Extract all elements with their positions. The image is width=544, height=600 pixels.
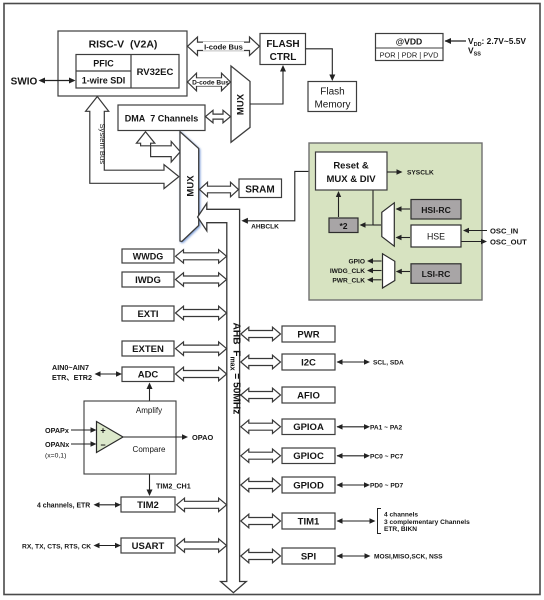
svg-text:IWDG: IWDG	[135, 275, 161, 286]
svg-text:SRAM: SRAM	[245, 185, 274, 196]
wire TIM2 pins arrow	[95, 504, 120, 506]
svg-text:RX, TX, CTS, RTS, CK: RX, TX, CTS, RTS, CK	[22, 543, 91, 550]
mux M1 central AHB mux	[180, 132, 199, 242]
wire VDD supply arrow	[445, 40, 466, 42]
svg-text:AIN0~AIN7: AIN0~AIN7	[52, 363, 89, 372]
bus DMA to M2 mux arrow	[206, 110, 231, 123]
wire SPI pins arrow	[337, 555, 369, 557]
svg-text:PD0 ~ PD7: PD0 ~ PD7	[370, 483, 404, 490]
svg-text:MOSI,MISO,SCK, NSS: MOSI,MISO,SCK, NSS	[374, 554, 443, 561]
wire OPAPx input	[71, 429, 95, 431]
svg-text:DMA 7 Channels: DMA 7 Channels	[125, 114, 199, 124]
wire USART pins arrow	[95, 545, 120, 547]
node TIM1 pins bracket	[378, 509, 382, 534]
svg-text:I2C: I2C	[301, 357, 316, 368]
bus AHB-GPIOA arrow	[241, 420, 281, 434]
svg-text:TIM1: TIM1	[298, 516, 320, 527]
svg-text:OSC_IN: OSC_IN	[490, 226, 518, 235]
wire GPIOA pins arrow	[337, 426, 369, 428]
svg-text:*2: *2	[339, 221, 347, 231]
svg-text:MUX & DIV: MUX & DIV	[326, 174, 376, 185]
svg-text:@VDD: @VDD	[396, 36, 423, 46]
svg-text:1-wire SDI: 1-wire SDI	[82, 76, 126, 86]
svg-text:4 channels: 4 channels	[384, 512, 418, 519]
wire ADC to TIM2 vertical TIM2_CH1	[149, 384, 151, 495]
svg-text:RISC-V (V2A): RISC-V (V2A)	[89, 39, 158, 51]
svg-text:AHBCLK: AHBCLK	[251, 223, 279, 230]
bus WWDG-AHB arrow	[176, 250, 227, 264]
svg-text:MUX: MUX	[236, 93, 247, 115]
svg-text:POR | PDR | PVD: POR | PDR | PVD	[380, 51, 439, 60]
svg-text:LSI-RC: LSI-RC	[422, 269, 451, 279]
bus EXTI-AHB arrow	[176, 306, 227, 320]
block SPI	[282, 548, 335, 564]
block @VDD POR PDR PVD	[376, 34, 444, 61]
svg-text:ADC: ADC	[138, 370, 159, 381]
wire OPAO output	[123, 436, 187, 438]
svg-text:PFIC: PFIC	[93, 59, 114, 69]
wire GPIOC pins arrow	[337, 455, 369, 457]
svg-text:System Bus: System Bus	[98, 124, 107, 165]
svg-text:GPIOA: GPIOA	[293, 422, 324, 433]
svg-text:+: +	[100, 425, 105, 435]
wire Reset box select line to mux-*2 line	[361, 191, 374, 226]
wire OPANx input	[71, 443, 95, 445]
wire *2 to Reset MUX DIV	[338, 193, 340, 218]
block DMA 7 Channels	[118, 105, 205, 131]
block HSE	[411, 225, 461, 247]
block TIM1	[282, 513, 335, 529]
svg-text:SYSCLK: SYSCLK	[407, 170, 434, 177]
svg-text:TIM2_CH1: TIM2_CH1	[156, 482, 191, 491]
svg-text:WWDG: WWDG	[133, 251, 164, 261]
block GPIOD	[282, 477, 335, 493]
svg-text:IWDG_CLK: IWDG_CLK	[330, 268, 365, 275]
svg-text:PWR: PWR	[297, 329, 319, 340]
wire ADC inputs arrow	[96, 373, 121, 375]
block SRAM	[239, 179, 282, 198]
block I2C	[282, 354, 335, 370]
block IWDG	[122, 272, 174, 287]
svg-text:ETR, BIKN: ETR, BIKN	[384, 526, 417, 533]
wire I2C pins arrow	[337, 361, 369, 363]
svg-text:Flash: Flash	[320, 87, 344, 98]
svg-text:Memory: Memory	[314, 100, 350, 111]
svg-text:GPIO: GPIO	[349, 259, 366, 266]
svg-text:USART: USART	[132, 541, 165, 552]
wire HSI-RC to mux	[397, 208, 411, 210]
wire M2 mux to FLASH CTRL	[250, 67, 283, 105]
bus AHB-I2C arrow	[241, 355, 281, 369]
bus MUX to SRAM arrow	[200, 182, 239, 197]
block GPIOA	[282, 419, 335, 435]
wire TIM1 pins arrow	[337, 520, 374, 522]
svg-text:Amplify: Amplify	[136, 406, 162, 415]
wire GPIOD pins arrow	[337, 484, 369, 486]
wire OSC_IN input	[464, 230, 487, 232]
svg-text:SCL, SDA: SCL, SDA	[373, 360, 404, 367]
wire GPIO clock output	[369, 260, 382, 262]
node Amplify label	[133, 405, 165, 415]
mux M4 low-speed clock mux	[383, 254, 395, 288]
wire AHBCLK from clock block	[243, 171, 316, 220]
bus D-code Bus arrow	[188, 73, 231, 91]
wire LSI-RC to mux	[397, 271, 410, 273]
block AFIO	[282, 387, 335, 403]
bus I-code Bus arrow	[188, 37, 260, 56]
svg-text:ETR、ETR2: ETR、ETR2	[52, 373, 92, 382]
mux M2 flash mux	[231, 66, 250, 142]
block Flash Memory	[308, 82, 357, 112]
block HSI-RC	[411, 200, 461, 220]
block ADC	[122, 367, 174, 382]
svg-text:TIM2: TIM2	[137, 500, 159, 511]
block PFIC / 1-wire SDI / RV32EC inner	[76, 55, 179, 89]
bus AHB-PWR arrow	[241, 327, 281, 341]
svg-text:OPAO: OPAO	[192, 433, 213, 442]
block PWR	[282, 326, 335, 342]
bus IWDG-AHB arrow	[176, 273, 227, 286]
block clock system green container	[309, 143, 482, 300]
block LSI-RC	[411, 264, 461, 284]
bus AHB-GPIOC arrow	[241, 449, 281, 463]
block EXTEN	[122, 341, 174, 356]
block RISC-V (V2A) core	[58, 31, 187, 96]
svg-text:RV32EC: RV32EC	[137, 67, 174, 78]
bus DMA to MUX elbow arrow	[136, 132, 180, 162]
bus AHB-AFIO arrow	[241, 388, 281, 402]
svg-text:3 complementary Channels: 3 complementary Channels	[384, 519, 470, 526]
svg-text:EXTI: EXTI	[137, 309, 158, 320]
svg-text:Compare: Compare	[133, 445, 166, 454]
svg-text:HSE: HSE	[427, 231, 445, 241]
bus AHB-SPI arrow	[241, 549, 281, 563]
mux M3 high-speed clock mux	[382, 203, 395, 246]
block USART	[121, 538, 175, 553]
svg-text:PA1 ~ PA2: PA1 ~ PA2	[370, 424, 403, 431]
svg-text:MUX: MUX	[186, 175, 197, 197]
svg-text:OSC_OUT: OSC_OUT	[490, 237, 527, 246]
block EXTI	[122, 306, 174, 321]
svg-text:PC0 ~ PC7: PC0 ~ PC7	[370, 453, 404, 460]
block GPIOC	[282, 448, 335, 464]
svg-text:Reset &: Reset &	[333, 161, 369, 172]
bus ADC-AHB arrow	[176, 367, 227, 381]
block FLASH CTRL	[260, 34, 306, 65]
svg-text:−: −	[100, 440, 105, 450]
svg-text:FLASH: FLASH	[266, 39, 299, 50]
svg-text:SWIO: SWIO	[11, 77, 38, 88]
svg-text:SPI: SPI	[301, 551, 316, 562]
wire FLASH CTRL to Flash Memory	[306, 49, 333, 80]
block WWDG	[122, 249, 174, 263]
op-amp U1 triangle	[97, 422, 124, 453]
bus USART-AHB arrow	[177, 539, 227, 552]
wire IWDG_CLK output	[369, 270, 382, 272]
svg-text:4 channels, ETR: 4 channels, ETR	[37, 503, 90, 510]
bus EXTEN-AHB arrow	[176, 342, 227, 356]
svg-text:(x=0,1): (x=0,1)	[45, 453, 66, 460]
node Compare label	[132, 444, 166, 454]
svg-text:HSI-RC: HSI-RC	[421, 205, 451, 215]
wire SWIO bidirectional arrow	[40, 80, 74, 82]
bus TIM2-AHB arrow	[177, 498, 227, 512]
bus AHB vertical backbone with arrow to MUX	[198, 203, 247, 592]
svg-text:GPIOD: GPIOD	[293, 480, 324, 491]
bus System Bus vertical arrow	[86, 97, 179, 189]
wire HSE to mux	[397, 237, 411, 239]
wire OSC_OUT output	[462, 241, 486, 243]
svg-text:OPAPx: OPAPx	[45, 426, 69, 435]
svg-text:GPIOC: GPIOC	[293, 451, 324, 462]
bus AHB-GPIOD arrow	[241, 478, 281, 492]
block *2 multiplier	[329, 218, 358, 233]
svg-text:AFIO: AFIO	[297, 390, 320, 401]
wire HS mux output to *2	[373, 224, 381, 226]
wire PWR_CLK output	[369, 279, 382, 281]
block TIM2	[121, 497, 175, 512]
block op-amp container	[84, 401, 176, 474]
block Reset & MUX & DIV	[316, 152, 388, 190]
svg-text:I-code Bus: I-code Bus	[204, 42, 243, 51]
svg-text:D-code Bus: D-code Bus	[192, 80, 229, 87]
svg-text:CTRL: CTRL	[270, 52, 297, 63]
svg-text:PWR_CLK: PWR_CLK	[332, 277, 365, 284]
svg-text:OPANx: OPANx	[45, 440, 69, 449]
wire SYSCLK output	[387, 171, 401, 173]
svg-text:EXTEN: EXTEN	[132, 344, 164, 355]
bus AHB-TIM1 arrow	[241, 514, 281, 528]
